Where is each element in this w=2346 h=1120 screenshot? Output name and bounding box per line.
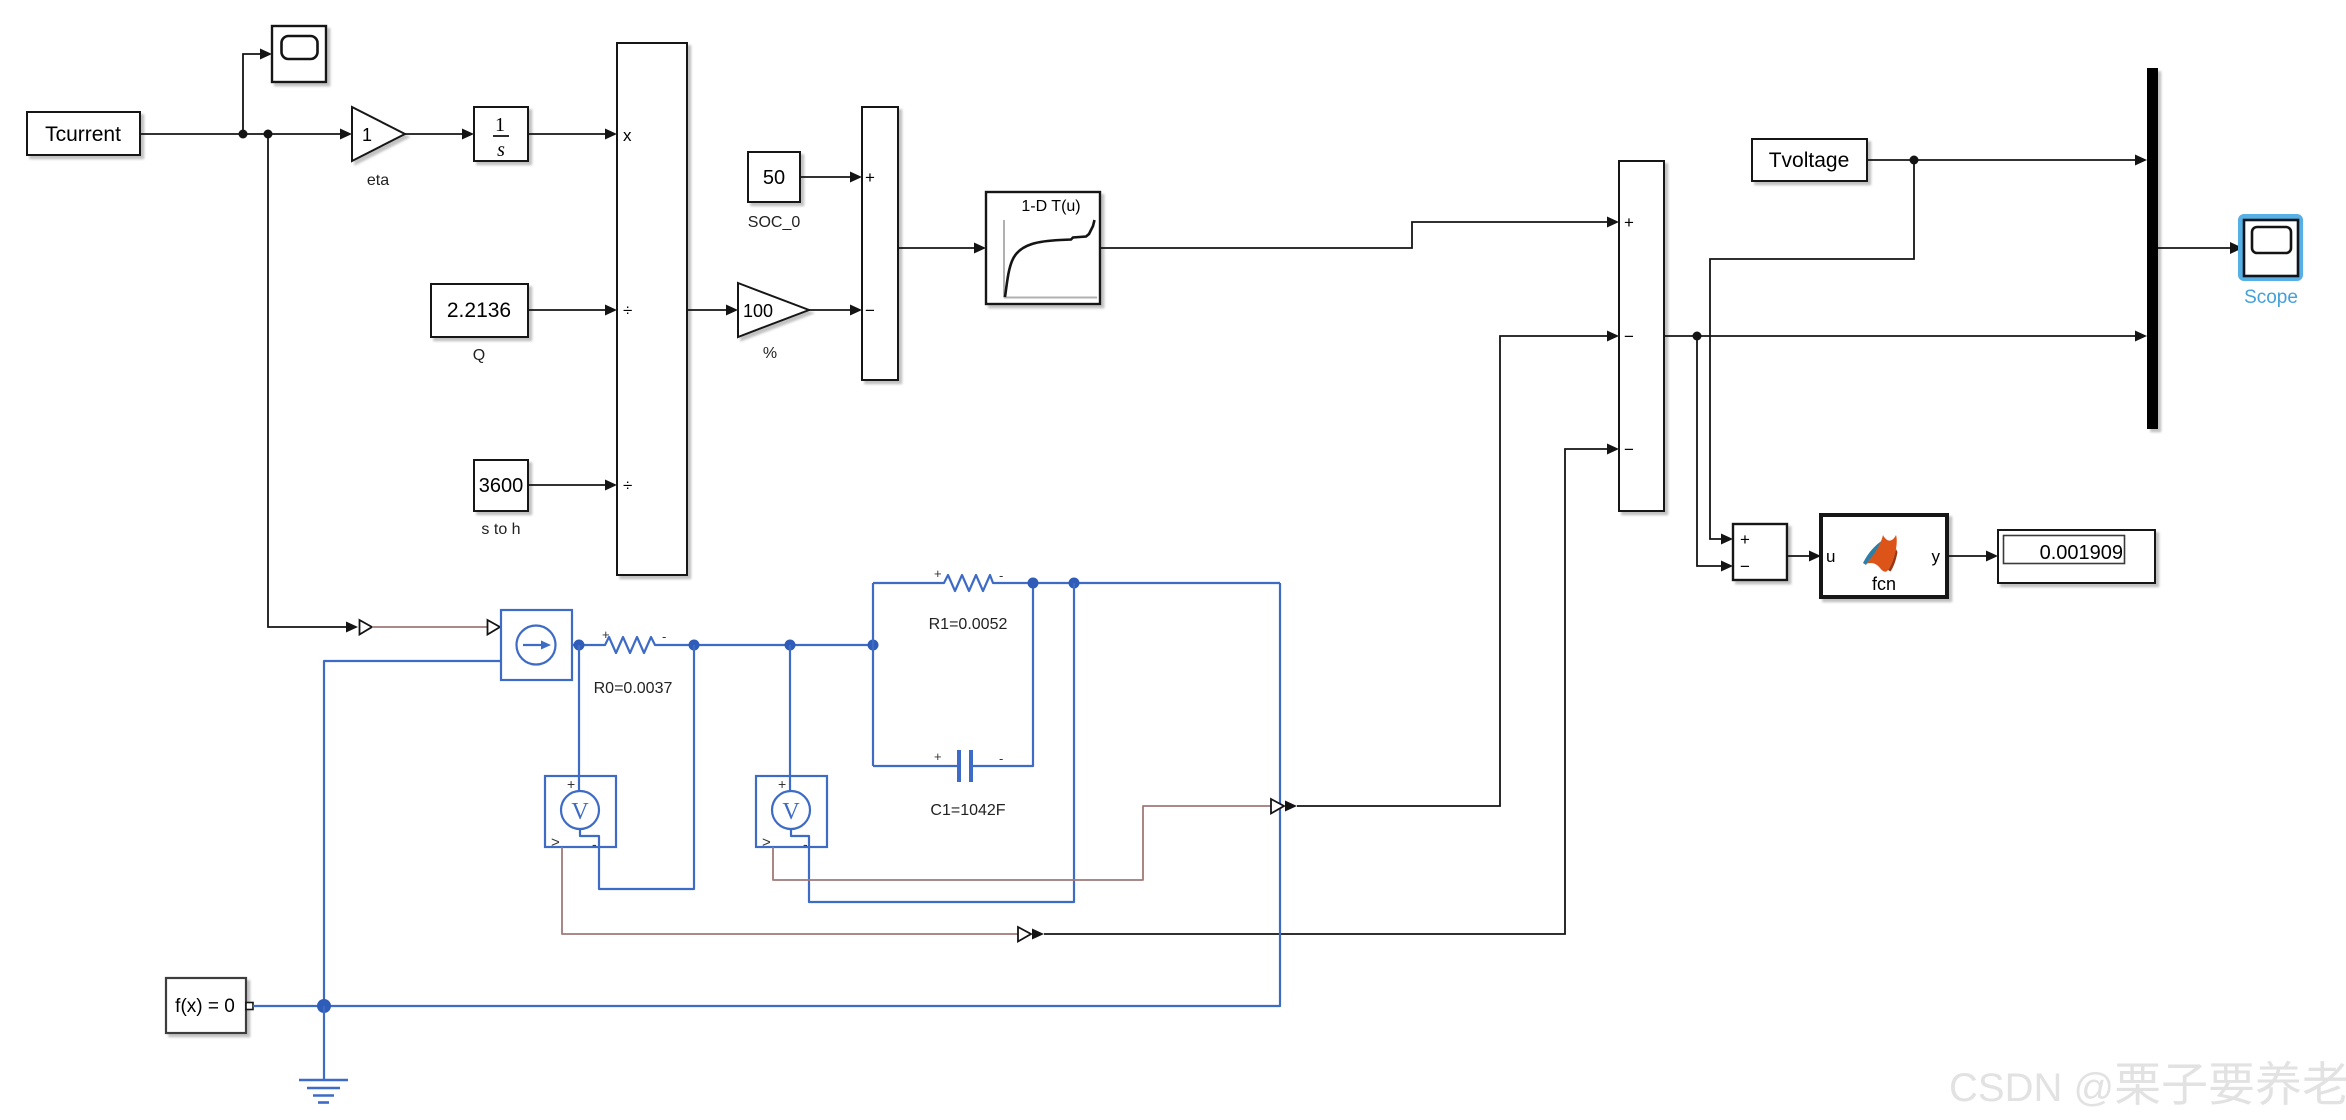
svg-text:R1=0.0052: R1=0.0052 bbox=[929, 616, 1008, 633]
PS-simulink converter (V1) bbox=[1018, 927, 1044, 942]
wire V2 plus lead bbox=[789, 645, 791, 791]
wire Tcurrent branch down to converter bbox=[268, 134, 358, 633]
MATLAB function block fcn bbox=[1821, 515, 1947, 597]
svg-text:-: - bbox=[592, 836, 597, 852]
svg-text:SOC_0: SOC_0 bbox=[748, 214, 801, 231]
node junction J1 bbox=[239, 130, 248, 139]
scope block (selected) bbox=[2238, 214, 2303, 308]
node junction J4 bbox=[1910, 156, 1919, 165]
node dot C (V2 tap) bbox=[785, 640, 796, 651]
svg-text:Scope: Scope bbox=[2244, 287, 2298, 308]
ground reference bbox=[299, 1006, 348, 1103]
wire SOC_0 to sum1 plus bbox=[800, 172, 862, 183]
wire Tvoltage to mux bbox=[1867, 155, 2147, 166]
wire PS converter1 to sum2 minus2 (from V2 sensor) bbox=[1297, 331, 1619, 807]
resistor R0 bbox=[594, 627, 673, 697]
physical signal wire into source bbox=[372, 626, 487, 628]
wire small sum to fcn bbox=[1787, 551, 1821, 562]
resistor R1 branch bbox=[873, 566, 1280, 633]
mux (black bar) bbox=[2147, 68, 2158, 429]
node dot D (RC left) bbox=[868, 640, 879, 651]
svg-text:+: + bbox=[1740, 530, 1750, 549]
svg-text:+: + bbox=[778, 776, 786, 792]
wire mux to scope bbox=[2158, 242, 2243, 254]
voltage sensor V1 bbox=[545, 776, 616, 852]
svg-text:V: V bbox=[782, 799, 800, 825]
wire main node row bbox=[572, 644, 600, 646]
svg-text:−: − bbox=[1624, 440, 1634, 459]
PS input port triangle of source bbox=[488, 620, 501, 635]
node dot G (ground junction) bbox=[317, 999, 331, 1013]
constant Q = 2.2136 bbox=[431, 284, 528, 364]
gain eta bbox=[352, 107, 405, 189]
wire RC left leg bbox=[872, 583, 874, 766]
svg-text:>: > bbox=[551, 834, 560, 851]
wire f(x)=0 to rail bbox=[253, 1005, 324, 1007]
svg-text:÷: ÷ bbox=[623, 476, 632, 495]
svg-text:R0=0.0037: R0=0.0037 bbox=[594, 680, 673, 697]
svg-text:1: 1 bbox=[495, 114, 505, 136]
svg-text:50: 50 bbox=[763, 167, 785, 189]
wire junction to small sum minus bbox=[1697, 336, 1733, 572]
solver config block f(x)=0 bbox=[166, 978, 253, 1033]
wire integrator to product port1 bbox=[528, 129, 617, 140]
svg-text:-: - bbox=[999, 568, 1003, 583]
wire V2 minus loop bbox=[791, 583, 1074, 902]
svg-text:-: - bbox=[999, 751, 1003, 766]
wire RC to bottom rail (right loop) bbox=[324, 583, 1280, 1006]
inport block Tcurrent bbox=[27, 112, 140, 155]
physical signal wire V1 measurement bbox=[562, 847, 1018, 934]
svg-text:+: + bbox=[934, 749, 942, 764]
inport block Tvoltage bbox=[1752, 139, 1867, 181]
svg-text:+: + bbox=[934, 566, 942, 581]
wire V1 plus lead bbox=[578, 645, 580, 791]
svg-text:1-D T(u): 1-D T(u) bbox=[1021, 198, 1080, 215]
svg-text:−: − bbox=[865, 301, 875, 320]
svg-text:s: s bbox=[497, 139, 505, 161]
svg-text:100: 100 bbox=[743, 301, 773, 321]
sum block voltage (+ - -) bbox=[1619, 161, 1664, 511]
integrator 1/s bbox=[474, 107, 528, 161]
svg-text:+: + bbox=[865, 168, 875, 187]
node junction J3 bbox=[1693, 332, 1702, 341]
wire Tcurrent output bbox=[140, 129, 352, 140]
svg-text:%: % bbox=[763, 345, 777, 362]
svg-text:x: x bbox=[623, 126, 632, 145]
small sum block (+ -) bbox=[1733, 524, 1787, 580]
scope block (current scope) bbox=[272, 26, 326, 82]
node dot A (source output) bbox=[574, 640, 585, 651]
watermark CSDN bbox=[1949, 1058, 2346, 1111]
svg-text:+: + bbox=[602, 627, 610, 642]
svg-text:f(x) = 0: f(x) = 0 bbox=[175, 996, 235, 1017]
svg-text:Tcurrent: Tcurrent bbox=[45, 123, 121, 146]
product block (divide) bbox=[617, 43, 687, 575]
svg-text:0.001909: 0.001909 bbox=[2040, 542, 2123, 564]
wire eta to integrator bbox=[405, 129, 474, 140]
gain 100 (%) bbox=[738, 283, 809, 362]
display block 0.001909 bbox=[1998, 530, 2155, 583]
svg-text:Q: Q bbox=[473, 347, 485, 364]
node dot F (V2 return) bbox=[1069, 578, 1080, 589]
svg-text:V: V bbox=[571, 799, 589, 825]
node junction J2 bbox=[264, 130, 273, 139]
wire fcn to display bbox=[1947, 551, 1998, 562]
wire to scope1 bbox=[243, 49, 272, 135]
svg-text:÷: ÷ bbox=[623, 301, 632, 320]
svg-text:+: + bbox=[1624, 213, 1634, 232]
wire Q to product port2 bbox=[528, 305, 617, 316]
PS-simulink converter (V2) bbox=[1271, 799, 1297, 814]
wire V1 minus loop bbox=[580, 645, 694, 889]
wire Tvoltage branch to small sum plus bbox=[1710, 160, 1914, 545]
svg-text:Tvoltage: Tvoltage bbox=[1769, 149, 1850, 172]
voltage sensor V2 bbox=[756, 776, 827, 852]
wire PS converter2 to sum2 minus3 (from V1 sensor) bbox=[1044, 444, 1619, 935]
constant 3600 (s to h) bbox=[474, 460, 528, 538]
physical signal wire V2 measurement bbox=[773, 806, 1271, 880]
MATLAB logo membrane bbox=[1863, 540, 1887, 565]
svg-text:+: + bbox=[567, 776, 575, 792]
node dot E (RC right top) bbox=[1028, 578, 1039, 589]
svg-text:-: - bbox=[662, 629, 666, 644]
wire product to gain 100 bbox=[687, 305, 738, 316]
1-D lookup table bbox=[986, 192, 1100, 304]
capacitor C1 branch bbox=[873, 583, 1033, 819]
svg-text:C1=1042F: C1=1042F bbox=[930, 802, 1005, 819]
node dot B (after R0) bbox=[689, 640, 700, 651]
svg-text:>: > bbox=[762, 834, 771, 851]
constant SOC_0 = 50 bbox=[748, 152, 801, 231]
svg-text:CSDN @栗子要养老: CSDN @栗子要养老 bbox=[1949, 1058, 2346, 1111]
wire gain to sum1 minus bbox=[809, 305, 862, 316]
svg-text:−: − bbox=[1624, 327, 1634, 346]
svg-text:2.2136: 2.2136 bbox=[447, 299, 511, 322]
wire 3600 to product port3 bbox=[528, 480, 617, 491]
svg-text:−: − bbox=[1740, 557, 1750, 576]
wire sum1 to lookup table bbox=[898, 243, 986, 254]
wire lookup to sum2 plus bbox=[1100, 217, 1619, 249]
svg-text:1: 1 bbox=[362, 125, 372, 145]
svg-text:fcn: fcn bbox=[1872, 574, 1896, 594]
svg-text:-: - bbox=[803, 836, 808, 852]
svg-text:u: u bbox=[1826, 547, 1835, 566]
svg-text:eta: eta bbox=[367, 172, 389, 189]
wire R0 to RC node bbox=[660, 644, 873, 646]
controlled current source block bbox=[501, 610, 572, 680]
svg-text:y: y bbox=[1932, 547, 1941, 566]
wire source left terminal to ground rail bbox=[324, 661, 501, 1006]
wire sum2 output to mux bbox=[1664, 331, 2147, 342]
simulink-PS converter triangle bbox=[360, 620, 373, 635]
svg-text:s to h: s to h bbox=[481, 521, 520, 538]
svg-text:3600: 3600 bbox=[479, 475, 524, 497]
sum block SOC (+ -) bbox=[862, 107, 898, 380]
